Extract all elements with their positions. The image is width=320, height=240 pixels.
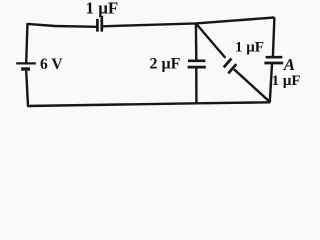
svg-text:6 V: 6 V — [40, 56, 63, 73]
wire right branch lower — [270, 64, 272, 102]
wire right branch upper — [273, 18, 275, 57]
circuit schematic: capacitor network with 6V battery — [0, 0, 310, 115]
wire top-right horizontal segment — [103, 18, 275, 27]
battery B1 long plate — [16, 62, 36, 64]
capacitor C4 plate lower (diagonal) — [228, 64, 236, 73]
svg-text:1 μF: 1 μF — [86, 0, 119, 17]
wire middle branch upper — [195, 23, 198, 59]
svg-text:A: A — [283, 55, 295, 74]
battery B1 short plate — [21, 67, 30, 70]
capacitor C2 plate bottom — [188, 66, 206, 69]
svg-text:1 μF: 1 μF — [235, 40, 264, 56]
wire left lower segment — [26, 71, 28, 106]
capacitor C3 plate bottom — [264, 62, 283, 65]
capacitor C2 plate top — [188, 59, 205, 62]
capacitor C1 plate right — [100, 16, 103, 32]
capacitor C1 plate left — [96, 19, 99, 32]
capacitor C4 plate upper (diagonal) — [224, 59, 232, 68]
wire left upper segment — [26, 23, 27, 63]
wire diagonal upper segment — [196, 23, 226, 58]
wire bottom horizontal — [27, 102, 270, 106]
svg-text:1 μF: 1 μF — [272, 73, 301, 89]
svg-text:2 μF: 2 μF — [150, 55, 181, 72]
capacitor C3 plate top — [266, 56, 283, 59]
wire top-left horizontal segment — [28, 24, 97, 27]
wire middle branch lower — [195, 68, 197, 103]
wire diagonal lower segment — [234, 69, 270, 102]
